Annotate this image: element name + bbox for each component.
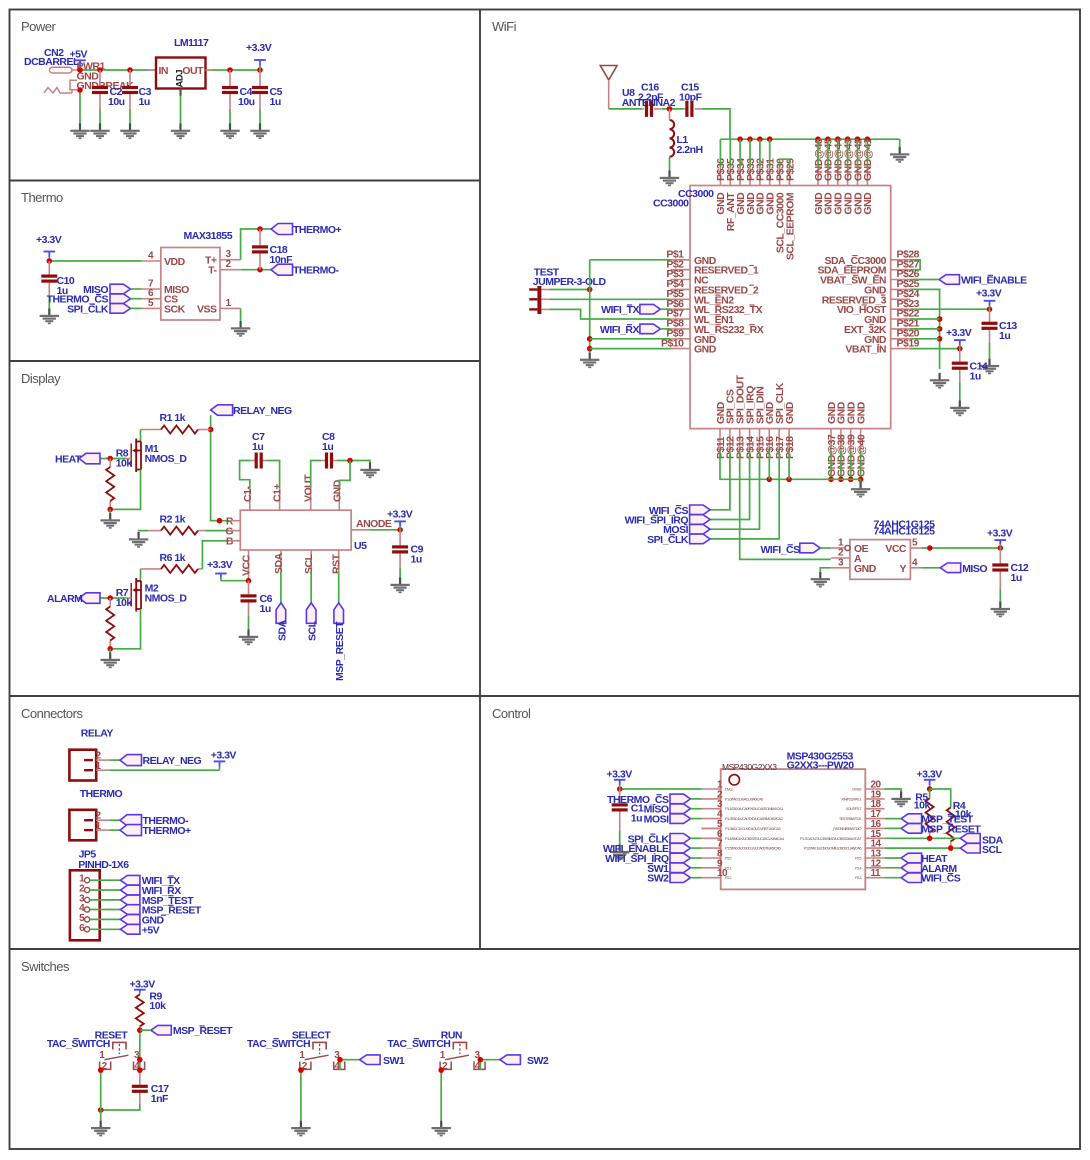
pin 5 stub	[702, 827, 721, 829]
junction	[767, 477, 773, 483]
wire JP5 pin4 to MSP_RESET	[90, 909, 121, 911]
pin P$7 WL_EN1	[666, 308, 734, 326]
capacitor C18	[252, 245, 268, 253]
pin P$24 RESERVED_3	[822, 288, 920, 306]
svg-text:GND: GND	[331, 479, 343, 502]
flag WIFI_ENABLE ctl	[670, 843, 691, 853]
flag MSP_RESET	[334, 603, 344, 624]
wire SCL to flag	[310, 572, 312, 603]
ground select	[291, 1121, 310, 1137]
pin 7 MSP430	[702, 839, 781, 851]
svg-text:MSP_RESET: MSP_RESET	[173, 1025, 233, 1037]
resistor R5	[926, 798, 934, 832]
junction	[587, 346, 593, 352]
ground ADJ	[171, 123, 190, 139]
flag SW1	[360, 1055, 381, 1065]
pin ANODE lead	[351, 529, 369, 531]
wire C5 to ground	[259, 109, 261, 124]
svg-text:DVcc: DVcc	[725, 787, 733, 792]
svg-text:+5V: +5V	[142, 924, 160, 936]
svg-text:Connectors: Connectors	[21, 706, 83, 721]
wire thermo pin1 to THERMO+	[109, 829, 120, 831]
junction	[937, 326, 943, 332]
capacitor C9	[392, 545, 408, 553]
pin P$34 GND	[735, 158, 747, 215]
ground M1 source	[101, 513, 120, 529]
wire jumper pin1 to P$1	[549, 289, 589, 291]
pin P$12 SPI_CS	[725, 389, 737, 459]
pin GND@39	[846, 401, 858, 477]
pin IN lead	[148, 69, 156, 71]
flag MSP_TEST jp5	[120, 895, 139, 905]
svg-text:P1.4/SMCLK/UCB0STE/UCA0CLK/A4/: P1.4/SMCLK/UCB0STE/UCA0CLK/A4/CA4	[725, 836, 785, 841]
junction	[107, 595, 113, 601]
pin P$19 VBAT_IN	[845, 337, 919, 355]
wire THERMO_CS to pin	[691, 798, 702, 800]
ground C3	[120, 123, 139, 139]
pin 3 T+	[220, 259, 241, 261]
pin 1 JP5	[79, 874, 90, 885]
ground L1	[660, 171, 679, 187]
svg-text:P1.5/TA0.0/UCB0CLK/UCA0STE/A5/: P1.5/TA0.0/UCB0CLK/UCA0STE/A5/CA5	[725, 846, 781, 851]
wire JP5 pin3 to MSP_TEST	[90, 899, 121, 901]
junction	[347, 458, 353, 464]
ground R2	[129, 532, 148, 548]
pin 6 MSP430	[702, 829, 785, 841]
wire T- net to THERMO-	[241, 269, 271, 271]
svg-text:C1-: C1-	[242, 486, 254, 502]
junction	[825, 136, 831, 142]
flag WIFI_RX jp5	[120, 885, 139, 895]
wire GND net vertical to P$1	[590, 259, 671, 261]
pin P$32 GND	[755, 158, 767, 215]
capacitor C1 pins	[619, 789, 621, 803]
ground C4	[220, 123, 239, 139]
pin M2 gate lead	[125, 597, 131, 599]
wire MSP_RESET flag stub	[140, 1029, 151, 1031]
pin G lead	[229, 530, 240, 532]
supply +5V	[74, 60, 86, 70]
svg-text:+3.3V: +3.3V	[607, 769, 633, 781]
wire MISO flag to pin	[131, 288, 142, 290]
junction	[747, 136, 753, 142]
wire rail stub GND@46	[817, 139, 819, 168]
wire +3.3V output rail	[212, 69, 260, 71]
wire C9 to ground	[399, 568, 401, 578]
supply +3.3V U5	[215, 574, 227, 581]
capacitor C13 pins	[989, 309, 991, 322]
wire WIFI_TX to P$6	[660, 308, 670, 310]
wire WIFI_CS stub	[885, 877, 902, 879]
wire SPI_CLK flag to pin	[131, 307, 142, 309]
pin 5 MSP430	[702, 819, 781, 831]
wire C17 bottom rail	[101, 1104, 140, 1110]
wire rail stub P$35	[729, 139, 731, 168]
svg-text:JUMPER-3-OLD: JUMPER-3-OLD	[533, 276, 607, 288]
pin C1- lead	[249, 488, 251, 510]
wire THERMO_CS flag to pin	[131, 298, 142, 300]
svg-text:RELAY_NEG: RELAY_NEG	[233, 405, 292, 417]
junction	[127, 67, 133, 73]
resistor R1	[161, 426, 198, 434]
wire jumper pin2 to P$5	[549, 298, 670, 300]
wire rail stub GND@45	[827, 139, 829, 168]
flag SW2 ctl	[670, 873, 691, 883]
pin 14 MSP430	[804, 839, 885, 851]
flag WIFI_CS ctl2	[901, 873, 922, 883]
svg-text:MOSI: MOSI	[644, 814, 669, 826]
svg-text:SPI_CLK: SPI_CLK	[67, 303, 109, 315]
supply +3.3V output	[254, 60, 266, 70]
wire VCC to +3.3V	[922, 547, 1001, 549]
wire MOSI to pin	[691, 818, 702, 820]
svg-text:2.2pF: 2.2pF	[638, 92, 664, 104]
svg-text:TAC_SWITCH: TAC_SWITCH	[47, 1038, 110, 1050]
svg-text:+3.3V: +3.3V	[207, 559, 233, 571]
ground P$25 net	[930, 373, 949, 389]
junction	[257, 226, 263, 232]
pin 19 MSP430	[841, 789, 884, 801]
ground M2 source	[101, 653, 120, 669]
svg-text:ALARM: ALARM	[47, 593, 83, 605]
pin SDA lead U5	[280, 550, 282, 572]
flag WIFI_TX	[640, 304, 661, 314]
connector RELAY	[69, 750, 96, 781]
junction	[835, 136, 841, 142]
junction	[737, 136, 743, 142]
svg-text:+3.3V: +3.3V	[987, 528, 1013, 540]
capacitor C5 pins	[259, 70, 261, 86]
flag WIFI_ENABLE	[939, 275, 960, 285]
pin P$23 VIO_HOST	[837, 298, 920, 316]
wire JP5 pin5 to GND	[90, 918, 121, 920]
wire P$22 stub	[911, 318, 940, 320]
capacitor C18 pins	[259, 229, 261, 245]
svg-text:GND: GND	[855, 401, 867, 424]
wire ALARM to gate	[99, 597, 125, 599]
svg-text:VCC: VCC	[885, 543, 907, 555]
switch S SELECT	[300, 1042, 345, 1069]
ground C13	[980, 359, 999, 375]
capacitor C2	[92, 86, 108, 94]
resistor R1 leads	[141, 429, 162, 431]
wire R6 to B pin	[202, 541, 229, 569]
junction	[77, 67, 83, 73]
junction	[77, 87, 83, 93]
wire WIFI_ENABLE to pin	[691, 847, 702, 849]
frame divider vertical	[479, 10, 481, 950]
inductor L1	[670, 109, 675, 157]
svg-text:U5: U5	[354, 540, 367, 552]
flag SDA ctl	[960, 834, 980, 844]
wire rail to ground	[860, 479, 862, 482]
pin P$28 SDA_CC3000	[824, 249, 919, 267]
pin 12 MSP430	[855, 858, 885, 870]
svg-text:10k: 10k	[116, 597, 133, 609]
flag WIFI_CS 2	[800, 543, 821, 553]
wire rail stub GND@43	[847, 139, 849, 168]
wire R9 to MSP_RESET and switch	[139, 1030, 141, 1070]
capacitor C12	[992, 563, 1008, 571]
pin P$16 GND	[764, 401, 776, 459]
wire ANODE to +3.3V	[369, 529, 400, 531]
resistor R7 leads	[109, 598, 111, 607]
junction	[98, 1067, 104, 1073]
svg-text:10u: 10u	[238, 96, 255, 108]
capacitor C8 leads	[321, 460, 325, 462]
wire GND@37 to bottom rail	[830, 451, 832, 480]
junction	[838, 477, 844, 483]
junction	[107, 507, 113, 513]
wire MISO to pin	[691, 808, 702, 810]
display U5 box	[240, 510, 351, 550]
svg-text:P1.3/ADC10CLK/CAOUT/VREF-/A3/C: P1.3/ADC10CLK/CAOUT/VREF-/A3/CA3	[725, 826, 780, 831]
flag THERMO_CS ctl	[670, 794, 691, 804]
wire SPI_CLK to pin	[691, 837, 702, 839]
wire T+ net to THERMO+	[241, 229, 271, 260]
resistor R9	[136, 994, 144, 1026]
ground jumper net	[580, 352, 599, 368]
pin P$18 GND	[784, 401, 796, 459]
wire M2 source to ground rail	[110, 609, 140, 649]
svg-text:P2.3: P2.3	[855, 875, 861, 880]
wire R2 to G pin	[206, 530, 229, 532]
supply +3.3V msp	[614, 780, 626, 789]
pin GND@38	[836, 401, 848, 477]
pin 8 MSP430	[702, 849, 733, 861]
junction	[848, 477, 854, 483]
svg-text:THERMO: THERMO	[80, 788, 123, 800]
transistor M1 NMOS_D	[131, 439, 141, 473]
flag MISO	[940, 563, 961, 573]
svg-text:WIFI_CS: WIFI_CS	[761, 544, 801, 556]
pin P$6 WL_RS232_TX	[666, 298, 762, 316]
pin P$22 GND	[864, 308, 920, 326]
svg-text:SCL_EEPROM: SCL_EEPROM	[784, 192, 796, 260]
svg-text:10k: 10k	[149, 1000, 166, 1012]
capacitor C12 pins	[999, 548, 1001, 563]
svg-text:XOUT/P2.7: XOUT/P2.7	[846, 806, 862, 811]
svg-text:WiFi: WiFi	[492, 19, 517, 34]
wire R7 bottom to ground	[109, 649, 111, 653]
wire +3.3V to VCC	[221, 580, 249, 582]
svg-text:P2.5: P2.5	[855, 856, 861, 861]
capacitor C1	[612, 803, 628, 811]
junction	[998, 545, 1004, 551]
wire C6 to ground	[248, 616, 250, 630]
pin 13 MSP430	[855, 849, 885, 861]
pin 1 MSP430	[702, 780, 733, 792]
wire WIFI_CS flag to OE	[820, 547, 830, 549]
svg-text:+3.3V: +3.3V	[917, 769, 943, 781]
wire P$13 to buffer A	[740, 451, 831, 560]
svg-text:1u: 1u	[1011, 572, 1022, 584]
svg-text:VDD: VDD	[164, 256, 186, 268]
pin 9 MSP430	[702, 858, 732, 870]
junction	[815, 136, 821, 142]
capacitor C17 plates	[132, 1085, 148, 1093]
svg-text:+3.3V: +3.3V	[130, 979, 156, 991]
pin P$2 RESERVED_1	[666, 258, 759, 276]
wire select pin2 to ground	[300, 1070, 302, 1121]
pin 2 JP5	[79, 884, 90, 895]
wire C8 left to VOUT pin	[311, 461, 322, 489]
flag RELAY_NEG	[211, 405, 233, 416]
svg-text:RELAY_NEG: RELAY_NEG	[143, 755, 202, 767]
junction	[845, 136, 851, 142]
pin 4 JP5	[79, 903, 90, 914]
wire R2 left to ground	[139, 530, 148, 533]
frame divider Thermo/Display	[10, 360, 481, 362]
wire HEAT to gate	[99, 458, 125, 460]
wire pin1 to +3.3V	[620, 788, 702, 790]
supply +3.3V thermo	[44, 252, 56, 262]
junction	[257, 267, 263, 273]
pin P$29 SCL_EEPROM	[784, 158, 796, 260]
resistor R8 leads	[109, 459, 111, 468]
supply +3.3V reset	[134, 990, 146, 995]
ground C10	[40, 309, 59, 325]
svg-text:+5V: +5V	[70, 48, 88, 60]
pin 5 JP5	[79, 913, 90, 924]
svg-text:THERMO+: THERMO+	[293, 224, 341, 236]
svg-text:PINHD-1X6: PINHD-1X6	[78, 859, 129, 871]
svg-text:GND: GND	[854, 563, 877, 575]
regulator U LM1117	[156, 58, 206, 89]
flag WIFI_CS	[690, 505, 711, 515]
pin P$31 GND	[765, 158, 777, 215]
wire C12 to ground	[999, 589, 1001, 602]
ground bottom rail	[851, 482, 870, 498]
ground C9	[390, 578, 409, 594]
junction	[617, 786, 623, 792]
supply +3.3V VBAT	[954, 340, 966, 349]
pin P$15 SPI_DIN	[754, 387, 766, 459]
resistor R2	[161, 527, 198, 535]
buffer U 74AHC1G125	[850, 540, 911, 580]
wire rail stub P$32	[759, 139, 761, 168]
pin 2 A	[831, 548, 862, 566]
flag WIFI_RX	[640, 324, 661, 334]
IC U1 MSP430G2553 box	[721, 769, 866, 889]
pin 16 MSP430	[831, 819, 885, 831]
switch S RESET	[100, 1042, 145, 1069]
svg-text:VSS: VSS	[197, 303, 217, 315]
wire rail stub GND@41	[866, 139, 868, 168]
flag MISO ctl	[670, 804, 691, 814]
wire R8 bottom to ground	[109, 509, 111, 513]
wire P$20 stub	[911, 338, 940, 340]
ground C14	[950, 401, 969, 417]
svg-text:P1.1/TA0.0/UCA0RXD/UCA0SOMI/A1: P1.1/TA0.0/UCA0RXD/UCA0SOMI/A1/CA1	[725, 806, 783, 811]
capacitor C15 leads	[684, 108, 686, 110]
pin P$4 RESERVED_2	[666, 278, 759, 296]
svg-text:SCL: SCL	[307, 620, 319, 641]
svg-text:SDA: SDA	[276, 619, 288, 641]
junction	[227, 67, 233, 73]
flag RELAY_NEG 2	[120, 755, 142, 766]
capacitor C8	[325, 453, 333, 469]
svg-text:MSP430G2XX3: MSP430G2XX3	[722, 762, 777, 772]
pin 2 thermo	[96, 819, 109, 821]
pin P$30 SCL_CC3000	[774, 158, 786, 253]
junction	[786, 477, 792, 483]
wire M1 source to ground rail	[110, 470, 140, 510]
wire C16 to C15	[662, 108, 684, 110]
wire HEAT stub	[885, 857, 902, 859]
pin P$36 GND	[715, 158, 727, 215]
wire rail stub P$33	[749, 139, 751, 168]
pin C17 top lead	[139, 1070, 141, 1084]
junction	[757, 136, 763, 142]
wire top distribution rail	[720, 138, 899, 140]
wire relay pin2 to RELAY_NEG	[109, 759, 120, 761]
wire P$26 to WIFI_ENABLE	[911, 279, 940, 281]
pin RST lead U5	[338, 550, 340, 572]
wire C4 to ground	[229, 109, 231, 124]
pin P$13 SPI_DOUT	[735, 374, 747, 459]
wire GND@39 to bottom rail	[850, 451, 852, 480]
wire select pin3 to SW1	[340, 1059, 360, 1061]
svg-text:GND: GND	[694, 344, 717, 356]
flag MSP_RESET jp5	[120, 905, 139, 915]
pin GND lead	[338, 488, 340, 510]
junction	[767, 136, 773, 142]
flag SCL ctl	[960, 843, 980, 853]
wire SW1 to pin	[691, 867, 702, 869]
pin P$35 RF_ANT	[725, 158, 737, 231]
transistor M2 NMOS_D	[131, 578, 141, 612]
flag THERMO+	[271, 224, 293, 235]
wire P$12 to WIFI_CS	[710, 451, 730, 510]
pin 10 MSP430	[702, 868, 732, 880]
junction	[948, 845, 954, 851]
ground rail	[890, 147, 909, 163]
pin 3 JP5	[79, 893, 90, 904]
pin P$25 GND	[864, 278, 920, 296]
svg-text:_RST/NMI/SBWTDIO: _RST/NMI/SBWTDIO	[831, 826, 862, 831]
svg-text:1u: 1u	[999, 330, 1010, 342]
capacitor C4	[222, 86, 238, 94]
ground run	[432, 1121, 451, 1137]
svg-text:11: 11	[871, 868, 882, 879]
connector JP5 PINHD-1X6	[70, 870, 100, 940]
junction	[667, 106, 673, 112]
junction	[246, 578, 252, 584]
wire buffer GND to ground	[820, 568, 830, 572]
resistor R6	[161, 565, 198, 573]
pin GND@40	[855, 401, 867, 477]
ground C1	[610, 845, 629, 861]
frame divider Display/Connectors	[10, 695, 481, 697]
wire VSS to ground	[240, 308, 242, 321]
svg-text:XIN/P2.6/TA0.1: XIN/P2.6/TA0.1	[841, 796, 861, 801]
wire C7 left to C1- pin	[240, 461, 251, 489]
svg-text:RELAY: RELAY	[81, 728, 114, 740]
junction	[865, 136, 871, 142]
capacitor C15	[685, 101, 693, 117]
svg-text:+3.3V: +3.3V	[36, 234, 62, 246]
wire P$16 to rail	[768, 451, 770, 480]
resistor R8	[106, 467, 114, 501]
wire +3.3V to VDD	[49, 260, 141, 262]
pin P$8 WL_RS232_RX	[666, 318, 763, 336]
svg-text:VOUT: VOUT	[303, 474, 315, 502]
pin 17 MSP430	[839, 809, 885, 821]
pin P$21 EXT_32K	[844, 318, 920, 336]
flag ALARM ctl2	[901, 863, 922, 873]
wire to ground reset	[100, 1110, 102, 1121]
